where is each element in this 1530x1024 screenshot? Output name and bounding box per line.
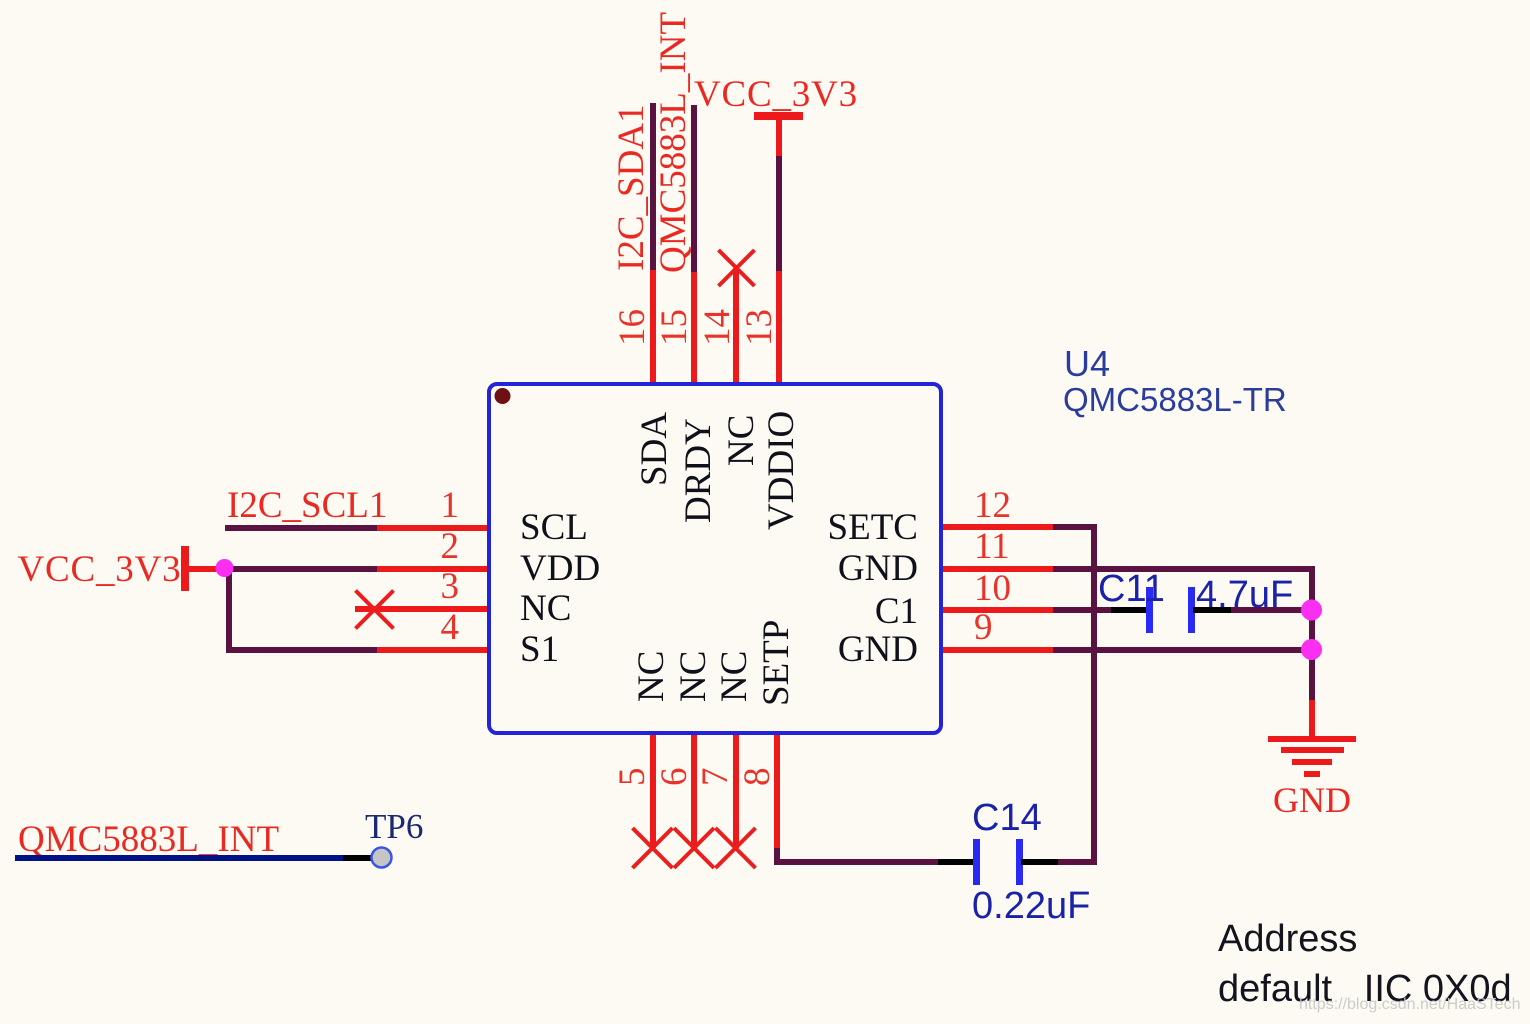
ground symbol bar4 [1304, 771, 1320, 778]
power symbol VCC_3V3 (top) text [694, 76, 858, 113]
capacitor C14 right plate [1016, 839, 1023, 885]
capacitor C11 right plate [1188, 587, 1195, 633]
wire: pin9 GND red stub [941, 647, 1053, 653]
net label QMC5883L_INT (bottom left) [18, 821, 279, 858]
pin name C1 [875, 593, 918, 630]
net label I2C_SDA1 (vertical) [613, 104, 650, 271]
no-connect X on pin3 [356, 250, 756, 868]
wire: pin10 C1 red stub [941, 607, 1053, 613]
pin name NC pin7 (vertical) [716, 651, 753, 702]
no-connect X on pin5 [633, 828, 673, 868]
pin number 8 (vertical) [739, 768, 776, 787]
pin number 15 (vertical) [656, 309, 693, 346]
wire: pin8 SETP red stub (bottom) [774, 731, 780, 848]
pin number 3 [441, 568, 460, 605]
pin number 4 [441, 609, 460, 646]
wire: C14 to vertical maroon [1058, 859, 1097, 866]
pin name SETP (vertical) [758, 620, 795, 706]
junction dot C11 right [1301, 600, 1322, 621]
wire: pin12 maroon [1053, 524, 1097, 530]
pin number 10 [974, 570, 1011, 607]
ground symbol bar3 [1292, 759, 1333, 765]
no-connect X on pin7 [716, 828, 756, 868]
pin name SDA (vertical) [636, 411, 673, 485]
watermark [1299, 997, 1520, 1013]
pin name SCL [520, 509, 588, 546]
pin name NC (pin3) [520, 590, 571, 627]
wire: pin14 NC red stub (top) [733, 268, 739, 386]
wire: pin13 red to power bar [776, 116, 782, 156]
address note line 1 [1218, 920, 1357, 958]
wire: pin9 maroon to right [1053, 647, 1311, 653]
wire: pin5 NC red stub (bottom) [650, 731, 656, 848]
pin name SETC [828, 509, 918, 546]
ground label GND [1273, 782, 1351, 818]
label C11 [1098, 570, 1165, 608]
wire: pin8 maroon elbow vertical [774, 848, 780, 865]
pin number 13 (vertical) [741, 309, 778, 346]
capacitor C14 left lead [938, 859, 975, 866]
test point TP6 label [365, 809, 423, 844]
wire: pin2 VDD maroon [224, 566, 377, 572]
value 0.22uF [972, 887, 1090, 925]
wire: SETC vertical maroon down to C14 [1091, 524, 1097, 865]
pin name VDD [520, 550, 600, 587]
wire: pin4 S1 red stub [377, 647, 490, 653]
wire: pin15 DRDY red stub (top) [691, 272, 697, 386]
capacitor C11 left plate [1146, 587, 1153, 633]
wire: pin2 VDD red stub [377, 566, 490, 572]
no-connect X on pin6 [674, 828, 714, 868]
pin number 1 [441, 487, 460, 524]
wire: pin15 DRDY maroon vertical [691, 105, 697, 272]
wire: GND rail vertical maroon [1309, 566, 1315, 700]
wire: left vertical maroon VCC branch [226, 567, 232, 653]
wire: pin8 maroon horizontal to C14 [774, 859, 938, 866]
wire: pin1 SCL net segment maroon [225, 525, 377, 531]
power symbol VCC_3V3 (left) text [18, 551, 182, 588]
pin name VDDIO (vertical) [763, 411, 800, 530]
part number QMC5883L-TR [1063, 383, 1287, 416]
pin name GND (pin9) [838, 631, 918, 668]
wire: GND rail vertical red [1309, 700, 1315, 738]
label C14 [972, 799, 1042, 837]
pin name NC pin14 (vertical) [723, 414, 760, 465]
pin number 16 (vertical) [614, 309, 651, 346]
capacitor C11 right lead [1193, 607, 1231, 613]
pin number 12 [974, 487, 1011, 524]
address note line 2 [1218, 970, 1512, 1008]
pin name GND (pin11) [838, 550, 918, 587]
ground symbol bar2 [1281, 747, 1345, 753]
wire: pin6 NC red stub (bottom) [691, 731, 697, 848]
value 4.7uF [1196, 576, 1293, 614]
wire: black segment to testpoint [343, 855, 372, 861]
wire: VCC bar to junction [188, 566, 218, 572]
pin number 7 (vertical) [697, 768, 734, 787]
test point TP6 pad [372, 848, 392, 868]
IC U1 body outline [487, 382, 943, 735]
capacitor C14 left plate [973, 839, 980, 885]
pin name DRDY (vertical) [680, 418, 717, 523]
wire: pin16 SDA maroon vertical [650, 103, 656, 270]
pin name NC pin6 (vertical) [675, 651, 712, 702]
wire: pin12 SETC red stub [941, 524, 1053, 530]
IC pin-1 marker dot [495, 388, 511, 404]
wire: pin7 NC red stub (bottom) [733, 731, 739, 848]
pin number 6 (vertical) [656, 768, 693, 787]
wire: C11 to GND rail maroon [1231, 607, 1311, 613]
pin number 2 [441, 528, 460, 565]
net label I2C_SCL1 [227, 487, 387, 524]
wire: pin4 S1 maroon [226, 647, 377, 653]
pin name NC pin5 (vertical) [633, 651, 670, 702]
wire: pin11 GND red stub [941, 566, 1053, 572]
wire: pin13 VDDIO red stub (top) [776, 270, 782, 386]
power symbol VCC_3V3 (left) bar [181, 546, 189, 591]
net label QMC5883L_INT (vertical) [655, 12, 692, 273]
pin number 14 (vertical) [699, 309, 736, 346]
capacitor C14 right lead [1021, 859, 1058, 866]
pin number 11 [974, 528, 1010, 565]
junction dot at VCC/pin2 [216, 559, 234, 577]
wire: pin11 maroon to right [1053, 566, 1315, 572]
ground symbol bar1 [1268, 736, 1356, 742]
designator U4 [1064, 346, 1110, 382]
wire: pin16 SDA red stub (top) [650, 270, 656, 386]
wire: pin13 maroon vertical [776, 154, 782, 271]
power symbol VCC_3V3 (top) bar [754, 112, 803, 120]
wire: pin10 maroon to C11 [1053, 607, 1111, 613]
wire: pin1 SCL red stub [377, 525, 490, 531]
pin number 5 (vertical) [614, 768, 651, 787]
wire: navy net wire to TP6 [15, 855, 343, 861]
junction dot pin9 rail [1301, 639, 1322, 660]
pin number 9 [974, 609, 993, 646]
wire: pin3 NC red stub [355, 606, 490, 612]
no-connect X on pin14 [719, 250, 755, 286]
capacitor C11 left lead [1111, 607, 1147, 613]
pin name S1 [520, 631, 559, 668]
